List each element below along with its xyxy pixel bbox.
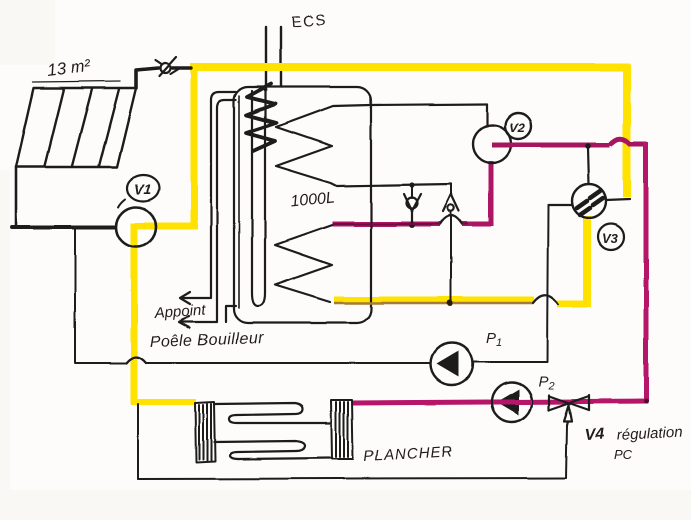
ink under yellow exit [334, 302, 533, 304]
valve V4 [549, 395, 589, 425]
electric heater coil (spring) [246, 84, 276, 151]
appoint pipe (wood stove) [179, 92, 236, 328]
floor manifold right block [331, 400, 353, 459]
solar panel 13m2 [16, 81, 136, 167]
magenta highlighter: right vertical down to mixing line [644, 142, 649, 402]
floor heating serpentine [214, 403, 331, 459]
yellow highlighter: V1 to riser [134, 223, 198, 230]
yellow highlighter: bottom left to floor manifold [131, 399, 196, 405]
yellow highlighter: after hop to V3 bottom [557, 301, 587, 308]
yellow highlighter: right vertical drop to V3 right port [623, 64, 631, 197]
floor circuit left drop [137, 404, 139, 479]
yellow highlighter: vertical from top run down to pump V1 [191, 64, 198, 228]
floor circuit bottom return [138, 478, 566, 479]
3-way valve V3 [588, 148, 589, 184]
svg-text:ECS: ECS [291, 12, 327, 31]
wire: down to V2 top [486, 104, 488, 126]
label V2 [505, 113, 531, 139]
hop arc on yellow run [533, 295, 558, 304]
yellow highlighter: tank lower coil exit run [334, 297, 534, 304]
hop arc on magenta line [440, 216, 462, 225]
wire: panel bottom to supply line [15, 167, 18, 226]
magenta highlighter: tank mid port to V2 bottom [332, 222, 440, 227]
wire: thick supply to V1 [12, 225, 117, 229]
check valve [155, 57, 178, 76]
pump P2 [492, 382, 532, 422]
node: V3 branch tee on V2 output line [585, 143, 591, 149]
drain valve branch [409, 182, 414, 187]
upper heat exchanger coil [276, 104, 487, 186]
magenta highlighter: V2 out to right drop [492, 143, 610, 148]
svg-text:V3: V3 [602, 231, 619, 246]
hop over yellow on P1 return [126, 357, 146, 363]
svg-text:régulation: régulation [616, 424, 683, 444]
ECS pipes (under highlight) [265, 27, 267, 90]
pump V2 [473, 125, 511, 163]
svg-text:PC: PC [614, 447, 633, 462]
svg-text:V2: V2 [509, 120, 526, 135]
wire: drop from supply line [74, 228, 76, 362]
tank 1000L [234, 87, 371, 323]
pump P1 [431, 343, 473, 385]
wire: panel to check valve [136, 68, 158, 88]
svg-text:V4: V4 [584, 426, 605, 444]
ink under magenta entry [332, 223, 440, 225]
floor manifold left block [195, 402, 215, 462]
yellow highlighter: top run from check valve to right drop [190, 63, 630, 71]
wire: bottom return to P1 with hop [75, 357, 431, 363]
node: magenta corner blob [644, 399, 649, 404]
floor circuit right riser to V4 [566, 425, 567, 478]
drain valve Y [404, 194, 421, 224]
wire: V3 left port down to P1 [474, 205, 548, 362]
dip tube inside tank [252, 88, 265, 306]
air vent A [443, 194, 459, 211]
wire: vent line down to yellow run [450, 212, 452, 301]
label V3 [598, 224, 624, 250]
air vent branch [450, 184, 452, 196]
label V1 [118, 175, 159, 207]
node: drain valve joins magenta run [409, 222, 415, 228]
lower heat exchanger coil [275, 225, 332, 302]
wire: check valve to yellow junction [172, 66, 191, 69]
yellow highlighter: V1 down the left side [131, 223, 138, 404]
magenta highlighter: floor return run through P2 and V4 [352, 401, 648, 403]
svg-text:V1: V1 [134, 181, 151, 197]
pump V1 [116, 207, 156, 247]
node: vent line joins yellow run [447, 300, 453, 306]
